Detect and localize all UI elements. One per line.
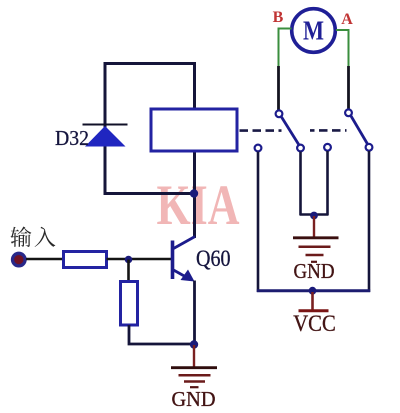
wire inner horizontal (300, 213, 329, 216)
wire input to R1 (26, 258, 64, 261)
diode D32 (83, 125, 128, 147)
node base junction (125, 256, 133, 264)
dashed link right segment (310, 129, 347, 132)
svg-text:VCC: VCC (293, 311, 336, 336)
power VCC (299, 292, 329, 311)
svg-text:GND: GND (294, 259, 335, 283)
wire motor left green (279, 29, 292, 68)
wire top loop horizontal (104, 62, 197, 65)
wire relay top vertical (193, 62, 196, 110)
resistor R2 (121, 282, 138, 326)
wire throw1 down (257, 152, 260, 292)
resistor R1 (64, 252, 107, 268)
wire junction to R2 (127, 260, 130, 283)
dashed link left segment (240, 129, 282, 132)
wire throw3 down (326, 151, 329, 215)
switch S1 (255, 110, 304, 151)
svg-text:KIA: KIA (157, 174, 240, 237)
wire R1 to base (107, 258, 172, 261)
svg-text:M: M (303, 16, 324, 46)
wire bottom loop horizontal (104, 192, 195, 195)
switch S2 (324, 109, 372, 150)
wire relay bottom / collector vertical (193, 150, 196, 238)
node VCC junction (309, 287, 317, 295)
relay K1 (151, 109, 237, 151)
svg-text:D32: D32 (55, 126, 89, 150)
transistor Q60 (173, 237, 196, 282)
svg-text:B: B (273, 9, 284, 26)
wire switch S1 pole (277, 66, 280, 110)
ground relay GND (293, 216, 339, 262)
svg-text:A: A (341, 11, 353, 28)
wire emitter down (193, 281, 196, 346)
motor M (292, 9, 336, 53)
wire throw2 down (299, 152, 302, 215)
node junction at loop bottom (190, 189, 198, 197)
wire switch S2 pole (347, 66, 350, 109)
svg-text:GND: GND (172, 387, 216, 411)
node inner junction (310, 212, 318, 220)
ground transistor GND (171, 345, 217, 387)
wire motor right green (336, 30, 349, 67)
label input 输入 (glyph outlines) (11, 227, 56, 248)
terminal input (12, 253, 25, 266)
wire throw4 down (368, 151, 371, 292)
wire outer horizontal VCC rail (257, 289, 370, 292)
wire R2 to emitter rail (129, 325, 194, 344)
wire left loop vertical (104, 62, 107, 195)
node emitter junction (190, 340, 198, 348)
svg-text:Q60: Q60 (196, 246, 231, 271)
